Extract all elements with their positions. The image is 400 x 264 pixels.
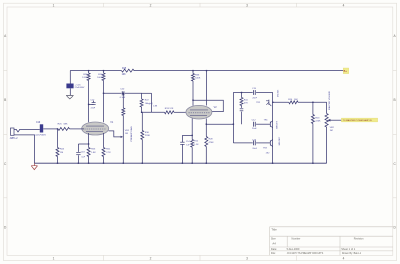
svg-text:R15: R15: [122, 68, 127, 70]
svg-text:3: 3: [246, 256, 248, 260]
svg-text:20nF: 20nF: [252, 148, 257, 150]
svg-text:4: 4: [343, 3, 345, 7]
svg-text:A4: A4: [272, 241, 276, 245]
svg-text:10K: 10K: [122, 74, 127, 76]
svg-text:20nF: 20nF: [252, 98, 257, 100]
svg-text:100K: 100K: [97, 77, 103, 79]
svg-text:R19 12K: R19 12K: [165, 108, 174, 110]
svg-text:1: 1: [53, 256, 55, 260]
svg-text:100K: 100K: [195, 78, 201, 80]
svg-text:Drawn By: Bak.L1: Drawn By: Bak.L1: [342, 252, 362, 255]
svg-text:JMP1-2: JMP1-2: [10, 138, 19, 140]
svg-text:Size: Size: [271, 238, 276, 241]
svg-text:Number: Number: [292, 238, 301, 241]
svg-text:Sheet 1 of 1: Sheet 1 of 1: [341, 247, 356, 251]
svg-text:TO MASTER POWER AMP IN: TO MASTER POWER AMP IN: [343, 119, 372, 122]
svg-text:1Meg(x2): 1Meg(x2): [145, 103, 153, 105]
svg-text:22nF: 22nF: [91, 107, 96, 109]
svg-text:MELODY: MELODY: [279, 136, 281, 145]
svg-text:1M: 1M: [60, 152, 63, 154]
svg-text:Date:: Date:: [271, 247, 277, 251]
svg-text:2: 2: [150, 3, 152, 7]
svg-text:B: B: [4, 98, 6, 102]
svg-text:68K: 68K: [64, 124, 68, 126]
svg-text:2: 2: [150, 256, 152, 260]
svg-text:1.5K: 1.5K: [194, 144, 199, 146]
svg-text:1M: 1M: [125, 133, 128, 135]
svg-text:2.7K: 2.7K: [106, 152, 111, 154]
svg-text:4: 4: [343, 256, 345, 260]
svg-text:B+: B+: [344, 69, 348, 73]
svg-text:120K: 120K: [82, 77, 88, 79]
svg-text:10K: 10K: [294, 99, 298, 101]
svg-text:5-Dec-2009: 5-Dec-2009: [287, 248, 300, 251]
svg-text:File:: File:: [271, 251, 276, 255]
svg-text:0.1uF: 0.1uF: [120, 97, 126, 99]
svg-text:2SC945: 2SC945: [277, 89, 279, 97]
svg-text:220K: 220K: [145, 135, 151, 137]
svg-text:0.022uF/400V: 0.022uF/400V: [34, 134, 47, 136]
svg-text:47K: 47K: [244, 103, 248, 105]
svg-text:1M: 1M: [330, 130, 333, 132]
svg-text:Title: Title: [271, 228, 277, 232]
svg-text:C19: C19: [36, 122, 41, 124]
svg-text:BRIGHT: BRIGHT: [276, 120, 278, 128]
svg-text:PREAMP GAIN: PREAMP GAIN: [130, 126, 133, 142]
svg-text:22uF/450V: 22uF/450V: [75, 87, 85, 89]
svg-text:470K: 470K: [209, 142, 215, 144]
svg-text:1: 1: [53, 3, 55, 7]
svg-text:MASTER VOLUME: MASTER VOLUME: [328, 90, 331, 110]
svg-text:+ C16: + C16: [75, 84, 82, 86]
svg-text:B: B: [394, 98, 396, 102]
svg-text:1.8K: 1.8K: [91, 152, 96, 154]
svg-text:JCC120Y.TS-PREAMP CIRCUITS: JCC120Y.TS-PREAMP CIRCUITS: [287, 252, 324, 255]
svg-text:3: 3: [246, 3, 248, 7]
svg-text:20nF: 20nF: [252, 128, 257, 130]
svg-text:220K: 220K: [315, 121, 321, 123]
svg-text:Revision: Revision: [354, 238, 364, 241]
